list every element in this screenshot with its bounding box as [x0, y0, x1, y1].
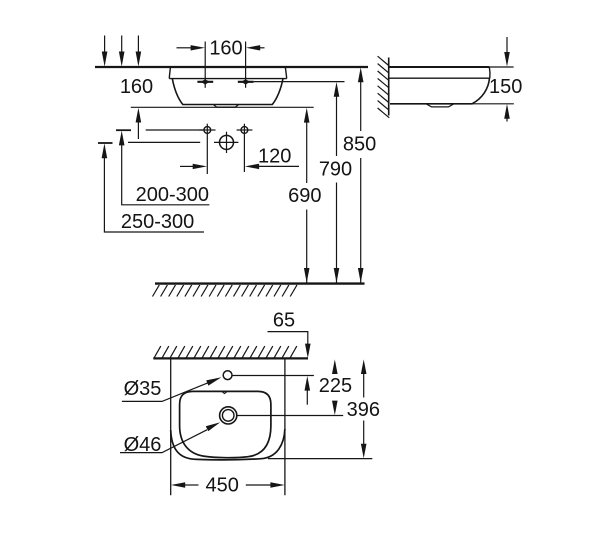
- dimension 790: [319, 82, 352, 283]
- basin front view body: [172, 79, 283, 105]
- side view wall hatching: [378, 56, 390, 118]
- drain line left level (250-300 tick): [98, 142, 113, 144]
- wall line (front view top reference): [95, 66, 368, 68]
- side view wall line: [388, 58, 390, 116]
- tap hole marker right (front view): [238, 42, 254, 88]
- label Ø46 with leader: [120, 422, 220, 456]
- dimension 160 (tap spacing, top): [177, 38, 265, 60]
- floor line: [155, 282, 365, 284]
- dimension 396: [347, 359, 380, 458]
- drain level line to circle 2: [128, 141, 200, 143]
- basin top view outer outline left edge / 450 extension: [170, 358, 172, 495]
- dimension 65: [268, 310, 311, 405]
- bottom view wall line: [153, 357, 308, 359]
- basin front view rim: [169, 68, 286, 79]
- svg-text:120: 120: [258, 146, 291, 168]
- mounting arrow 3: [136, 36, 142, 67]
- basin side view rim bottom line: [389, 77, 490, 79]
- drain hole circles (top view): [220, 407, 237, 424]
- basin bottom reference line (160 lower): [131, 106, 314, 108]
- dimension 690: [288, 108, 321, 283]
- svg-text:225: 225: [319, 375, 352, 397]
- supply connection circle 3: [237, 124, 253, 172]
- dimension 250-300 leader: [102, 143, 204, 233]
- basin side view bottom edge: [390, 103, 473, 105]
- svg-text:65: 65: [273, 310, 295, 332]
- tap hole marker left (front view): [197, 42, 213, 88]
- svg-text:790: 790: [319, 158, 352, 180]
- tap hole level line: [232, 375, 314, 377]
- svg-text:200-300: 200-300: [136, 184, 209, 206]
- svg-text:160: 160: [120, 76, 153, 98]
- mounting arrow 1: [102, 36, 108, 67]
- svg-text:160: 160: [209, 38, 242, 60]
- dimension 120: [180, 146, 299, 170]
- tap level line (790 reference): [254, 81, 345, 83]
- bottom view wall hatching: [154, 346, 297, 358]
- mounting arrow 2: [119, 36, 125, 67]
- svg-text:Ø35: Ø35: [124, 378, 162, 400]
- dimension 225: [319, 359, 352, 415]
- label Ø35 with leader: [122, 377, 222, 401]
- supply level line to circle 1: [146, 129, 204, 131]
- tap hole circle (top view): [223, 371, 232, 380]
- dimension 850: [343, 67, 376, 282]
- basin side view body curve: [472, 78, 489, 104]
- drain connection circle 2: [214, 132, 238, 153]
- drain level line: [237, 415, 343, 417]
- dimension 200-300 leader: [119, 131, 209, 207]
- svg-text:150: 150: [489, 76, 522, 98]
- supply connection circle 1: [200, 124, 216, 174]
- svg-text:250-300: 250-300: [121, 211, 194, 233]
- basin side view top edge: [389, 66, 490, 68]
- svg-text:690: 690: [288, 185, 321, 207]
- extension line for 150 (bottom): [473, 103, 514, 105]
- basin bottom reference line (396 lower): [268, 458, 372, 460]
- basin front drain bump: [214, 105, 239, 108]
- floor hatching: [153, 285, 298, 297]
- dimension 450: [171, 475, 285, 497]
- svg-text:396: 396: [347, 399, 380, 421]
- svg-text:450: 450: [206, 475, 239, 497]
- extension line for 150 (top): [489, 66, 513, 68]
- basin top view outer outline right edge / 450 extension: [284, 358, 286, 495]
- svg-text:850: 850: [343, 134, 376, 156]
- basin top view inner bowl: [180, 391, 271, 457]
- basin side view rim right edge: [488, 67, 491, 78]
- dimension 160 (wall to basin bottom, left): [120, 76, 153, 139]
- dimension 150: [489, 37, 522, 122]
- side view drain bump: [426, 104, 454, 107]
- bowl overflow notch: [222, 392, 227, 394]
- basin top view outer outline bottom: [171, 429, 285, 460]
- supply line left level (200-300 tick): [116, 129, 131, 131]
